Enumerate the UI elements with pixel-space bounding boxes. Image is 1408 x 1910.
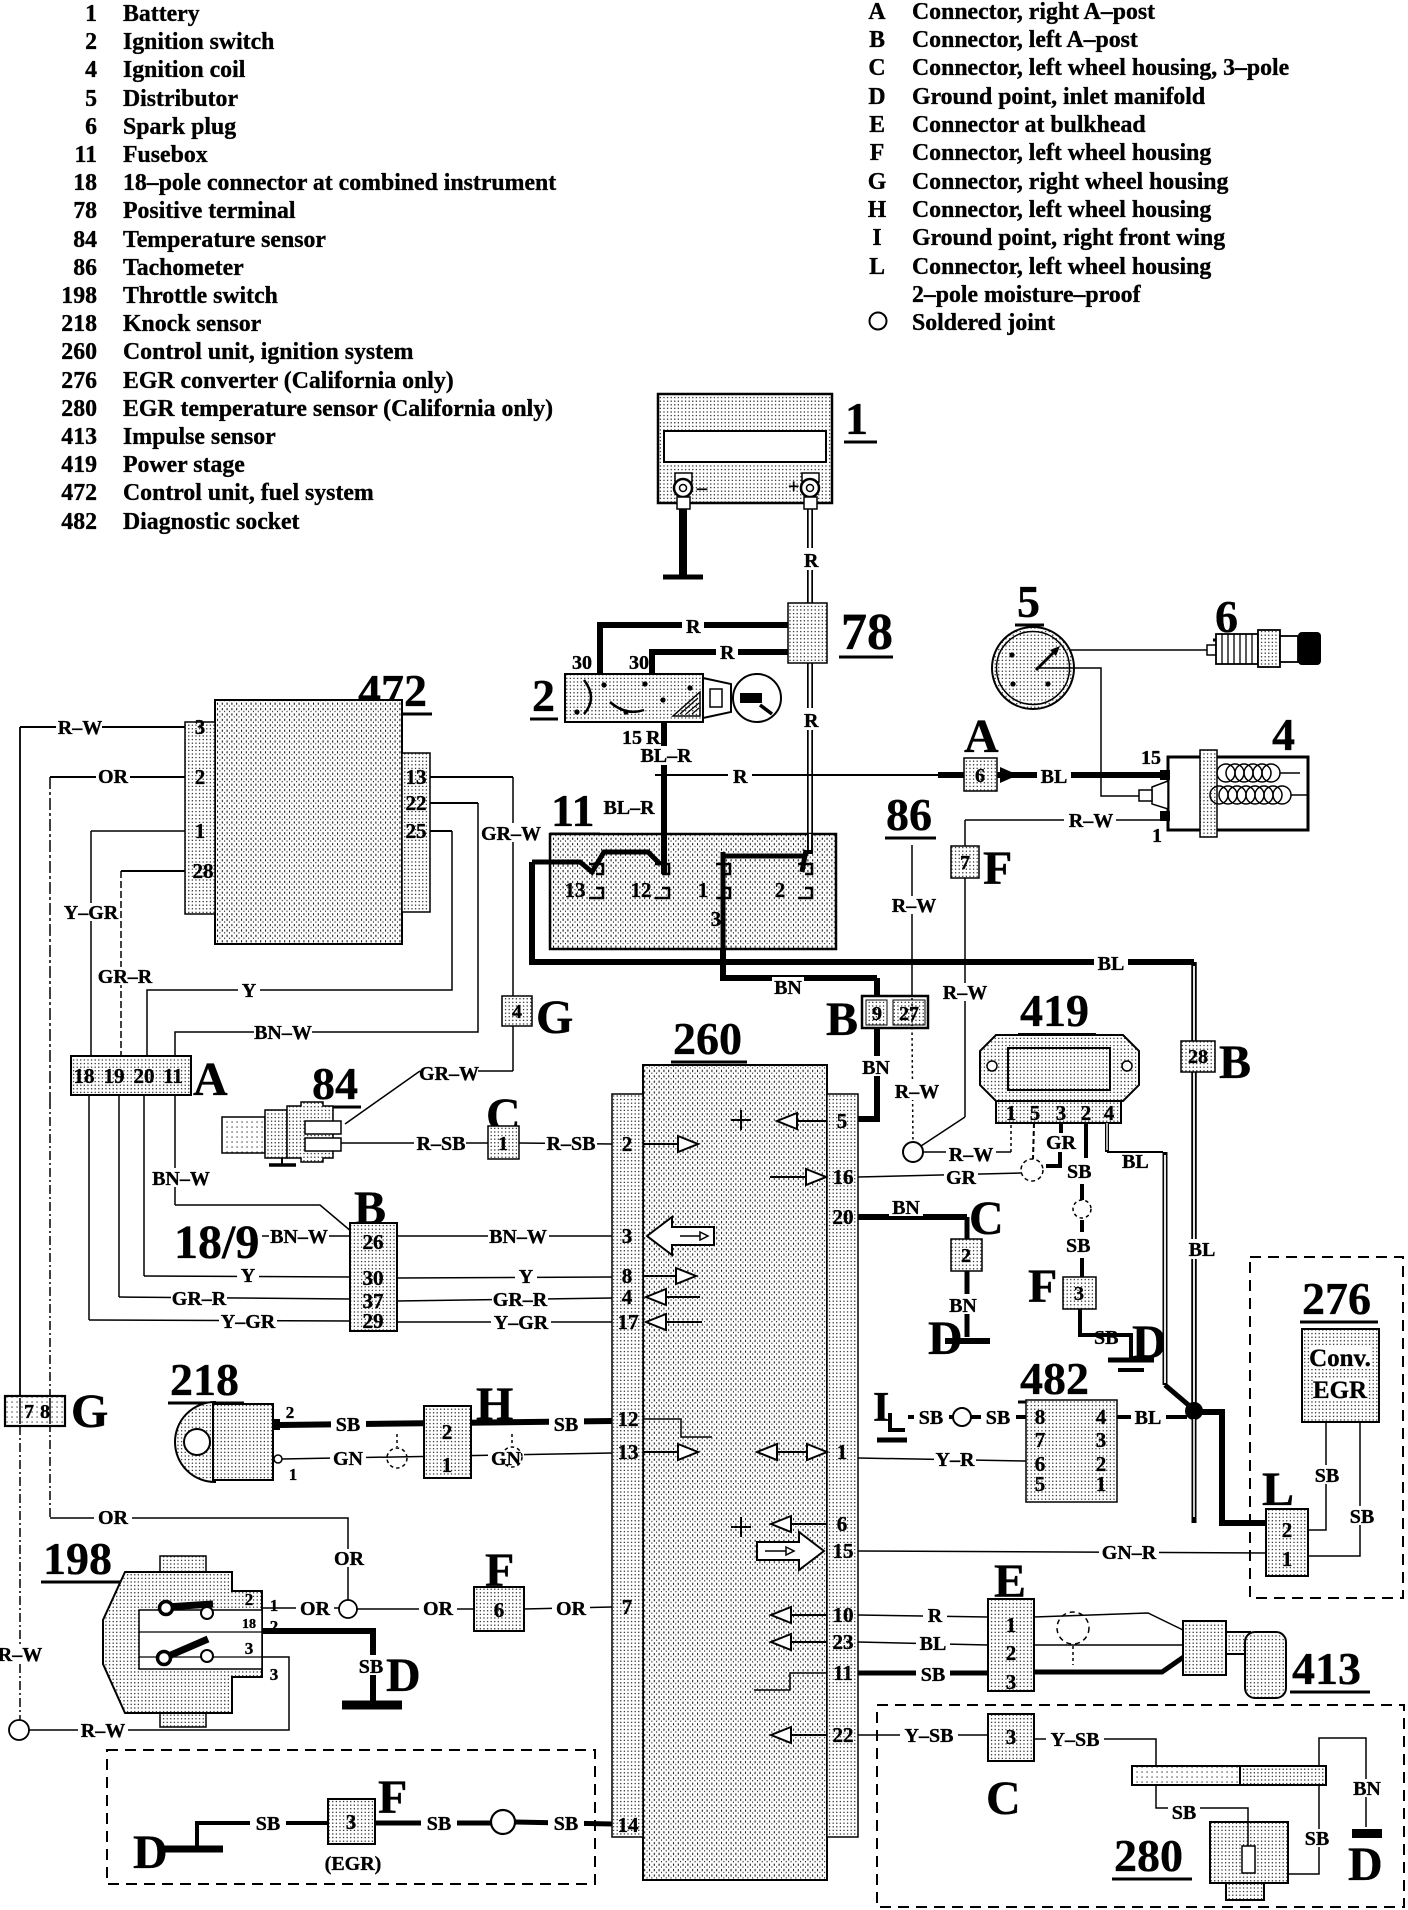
svg-text:3: 3 [711,907,722,931]
svg-text:7: 7 [960,852,970,874]
svg-text:Connector, left wheel housing: Connector, left wheel housing [912,197,1211,223]
svg-text:1: 1 [1006,1613,1017,1637]
svg-text:276: 276 [61,368,97,394]
svg-text:2: 2 [442,1420,453,1444]
svg-text:BN: BN [1353,1778,1381,1800]
svg-text:SB: SB [336,1414,360,1436]
svg-text:SB: SB [1305,1828,1329,1850]
svg-text:SB: SB [359,1656,383,1678]
svg-text:GN–R: GN–R [1102,1542,1157,1564]
svg-text:F: F [1028,1260,1057,1313]
svg-text:419: 419 [61,452,97,478]
svg-text:26: 26 [363,1230,384,1254]
svg-text:78: 78 [841,604,893,661]
svg-text:A: A [964,710,999,763]
svg-text:9: 9 [872,1003,882,1025]
svg-text:GN: GN [333,1448,364,1470]
svg-text:3: 3 [1074,1283,1084,1305]
svg-text:Positive terminal: Positive terminal [123,198,296,224]
svg-text:1: 1 [845,393,868,444]
svg-text:Impulse sensor: Impulse sensor [123,424,276,450]
svg-text:4: 4 [622,1285,633,1309]
svg-text:198: 198 [43,1533,112,1584]
svg-text:BL: BL [1098,953,1125,975]
svg-text:BN: BN [774,977,802,999]
svg-text:SB: SB [1315,1465,1339,1487]
svg-text:I: I [873,1385,889,1431]
svg-text:2: 2 [245,1590,254,1609]
svg-text:1: 1 [1152,825,1162,847]
svg-text:30: 30 [572,652,592,674]
svg-text:F: F [870,140,885,166]
svg-text:D: D [1348,1838,1383,1891]
svg-text:18: 18 [74,1064,95,1088]
svg-text:GR: GR [1046,1132,1077,1154]
svg-text:7: 7 [24,1401,34,1423]
svg-text:280: 280 [1114,1830,1183,1881]
svg-text:R–W: R–W [943,982,987,1004]
svg-text:SB: SB [554,1813,578,1835]
svg-text:EGR: EGR [1313,1377,1368,1404]
svg-text:Connector, left wheel housing,: Connector, left wheel housing, 3–pole [912,55,1289,81]
svg-text:R–W: R–W [892,895,936,917]
svg-text:28: 28 [1188,1046,1208,1068]
svg-text:Y–GR: Y–GR [221,1311,276,1333]
svg-text:C: C [969,1192,1004,1245]
svg-text:BN: BN [892,1197,920,1219]
svg-text:Connector, left wheel housing: Connector, left wheel housing [912,254,1211,280]
svg-text:2: 2 [85,29,97,55]
svg-text:11: 11 [551,785,594,836]
svg-text:8: 8 [1035,1405,1046,1429]
svg-text:6: 6 [975,765,985,787]
svg-text:Tachometer: Tachometer [123,255,244,281]
svg-text:D: D [1132,1316,1167,1369]
svg-text:1: 1 [289,1465,298,1484]
svg-text:4: 4 [1096,1405,1107,1429]
svg-text:I: I [872,225,881,251]
svg-text:G: G [71,1385,108,1438]
svg-text:SB: SB [256,1813,280,1835]
svg-text:15: 15 [622,727,642,749]
svg-text:Diagnostic socket: Diagnostic socket [123,509,300,535]
svg-text:2: 2 [286,1403,295,1422]
svg-text:Ignition coil: Ignition coil [123,57,246,83]
svg-text:BL–R: BL–R [603,797,655,819]
svg-text:R–SB: R–SB [547,1133,596,1155]
svg-text:1: 1 [442,1453,453,1477]
svg-text:OR: OR [98,1507,129,1529]
svg-text:A: A [868,0,886,25]
svg-text:5: 5 [837,1109,848,1133]
svg-text:C: C [986,1772,1021,1825]
svg-text:11: 11 [833,1661,853,1685]
svg-text:6: 6 [494,1598,505,1622]
svg-text:F: F [378,1771,407,1824]
svg-text:R–W: R–W [81,1720,125,1742]
svg-text:17: 17 [618,1310,639,1334]
svg-text:Y–SB: Y–SB [1051,1729,1100,1751]
svg-text:C: C [868,55,885,81]
svg-text:3: 3 [1056,1101,1067,1125]
svg-text:2: 2 [775,878,786,902]
svg-text:R: R [686,616,701,638]
svg-text:B: B [826,993,858,1046]
svg-text:R: R [733,766,748,788]
svg-text:29: 29 [363,1309,384,1333]
svg-text:SB: SB [986,1407,1010,1429]
svg-text:2: 2 [961,1245,971,1267]
svg-text:1: 1 [498,1133,508,1155]
svg-text:30: 30 [629,652,649,674]
svg-text:Throttle switch: Throttle switch [123,283,278,309]
svg-text:R: R [720,642,735,664]
svg-text:Connector, right A–post: Connector, right A–post [912,0,1155,25]
svg-text:2: 2 [622,1132,633,1156]
svg-text:15: 15 [833,1539,854,1563]
svg-text:5: 5 [1035,1472,1046,1496]
svg-text:2: 2 [1081,1101,1092,1125]
svg-text:BN–W: BN–W [254,1022,312,1044]
svg-text:Connector, right wheel housing: Connector, right wheel housing [912,169,1229,195]
svg-text:4: 4 [1272,709,1295,760]
svg-text:GR–R: GR–R [493,1289,548,1311]
svg-text:18–pole connector at combined: 18–pole connector at combined instrument [123,170,556,196]
svg-text:GR–W: GR–W [481,823,541,845]
svg-text:R–W: R–W [58,717,102,739]
svg-text:13: 13 [618,1440,639,1464]
svg-text:OR: OR [98,766,129,788]
svg-text:GR–R: GR–R [172,1288,227,1310]
svg-text:BL–R: BL–R [640,745,692,767]
svg-text:Connector, left wheel housing: Connector, left wheel housing [912,140,1211,166]
svg-text:SB: SB [1094,1327,1118,1349]
svg-text:482: 482 [1020,1353,1089,1404]
svg-text:H: H [476,1378,513,1431]
svg-text:Battery: Battery [123,1,200,27]
svg-text:GR: GR [946,1167,977,1189]
svg-text:(EGR): (EGR) [325,1853,382,1875]
svg-text:BN: BN [862,1057,890,1079]
svg-text:R: R [804,550,819,572]
svg-text:3: 3 [245,1639,254,1658]
svg-text:1: 1 [270,1596,279,1615]
svg-text:Y–R: Y–R [936,1449,975,1471]
svg-text:GR–W: GR–W [419,1063,479,1085]
svg-text:EGR converter (California only: EGR converter (California only) [123,368,454,394]
svg-text:4: 4 [1104,1101,1115,1125]
svg-text:+: + [788,476,799,498]
svg-text:R–W: R–W [1069,810,1113,832]
svg-text:G: G [868,169,887,195]
svg-text:SB: SB [919,1407,943,1429]
svg-text:Ground point, inlet manifold: Ground point, inlet manifold [912,84,1205,110]
svg-text:B: B [1219,1036,1251,1089]
svg-text:Ground point, right front wing: Ground point, right front wing [912,225,1225,251]
svg-text:218: 218 [61,311,97,337]
svg-text:R–W: R–W [0,1644,42,1666]
svg-text:20: 20 [134,1064,155,1088]
svg-text:Connector, left A–post: Connector, left A–post [912,27,1138,53]
svg-text:SB: SB [554,1414,578,1436]
svg-text:BL: BL [1122,1151,1149,1173]
svg-text:3: 3 [1006,1725,1017,1749]
svg-text:BN–W: BN–W [152,1168,210,1190]
svg-text:2: 2 [1282,1518,1293,1542]
svg-text:H: H [868,197,887,223]
svg-text:SB: SB [427,1813,451,1835]
svg-text:27: 27 [899,1003,919,1025]
svg-text:1: 1 [1282,1547,1293,1571]
svg-text:6: 6 [837,1512,848,1536]
svg-text:3: 3 [1096,1428,1107,1452]
svg-text:218: 218 [170,1354,239,1405]
svg-text:3: 3 [1006,1670,1017,1694]
svg-text:86: 86 [73,255,97,281]
svg-text:OR: OR [556,1598,587,1620]
svg-text:BL: BL [1189,1239,1216,1261]
svg-text:SB: SB [1066,1235,1090,1257]
svg-text:4: 4 [512,1001,522,1023]
svg-text:Y: Y [519,1266,534,1288]
svg-text:OR: OR [334,1548,365,1570]
svg-text:8: 8 [40,1401,50,1423]
svg-text:78: 78 [73,198,97,224]
svg-text:12: 12 [618,1407,639,1431]
svg-text:Knock sensor: Knock sensor [123,311,262,337]
svg-text:SB: SB [921,1664,945,1686]
svg-text:1: 1 [837,1440,848,1464]
svg-text:SB: SB [1350,1506,1374,1528]
svg-text:419: 419 [1020,985,1089,1036]
svg-text:SB: SB [1172,1802,1196,1824]
svg-text:R–W: R–W [895,1081,939,1103]
svg-text:E: E [869,112,885,138]
svg-text:Soldered joint: Soldered joint [912,310,1055,336]
svg-text:G: G [536,991,573,1044]
svg-text:16: 16 [833,1165,854,1189]
svg-text:3: 3 [195,715,206,739]
svg-text:84: 84 [73,227,97,253]
svg-text:472: 472 [61,480,97,506]
svg-text:Y: Y [242,980,257,1002]
svg-text:D: D [868,84,885,110]
svg-text:R: R [804,710,819,732]
svg-text:Control unit, ignition system: Control unit, ignition system [123,339,414,365]
svg-text:R: R [928,1605,943,1627]
svg-text:22: 22 [406,791,427,815]
svg-text:25: 25 [406,819,427,843]
svg-text:Conv.: Conv. [1309,1345,1371,1372]
svg-text:3: 3 [622,1224,633,1248]
svg-text:F: F [983,842,1012,895]
svg-text:Y–SB: Y–SB [905,1725,954,1747]
svg-text:Distributor: Distributor [123,86,238,112]
svg-text:1: 1 [85,1,97,27]
svg-text:BL: BL [920,1633,947,1655]
svg-text:4: 4 [85,57,97,83]
svg-text:1: 1 [1006,1101,1017,1125]
svg-text:30: 30 [363,1266,384,1290]
svg-text:Power stage: Power stage [123,452,245,478]
svg-text:5: 5 [1017,576,1040,627]
svg-text:18: 18 [242,1617,256,1632]
svg-text:2: 2 [1006,1641,1017,1665]
svg-text:GN: GN [491,1448,522,1470]
svg-text:20: 20 [833,1205,854,1229]
svg-text:Y–GR: Y–GR [64,902,119,924]
svg-text:13: 13 [406,765,427,789]
svg-text:15: 15 [1141,747,1161,769]
svg-text:1: 1 [698,878,709,902]
svg-text:2: 2 [532,670,555,721]
svg-text:13: 13 [565,878,586,902]
svg-text:198: 198 [61,283,97,309]
svg-text:R–W: R–W [949,1144,993,1166]
svg-text:B: B [869,27,885,53]
svg-text:23: 23 [833,1630,854,1654]
svg-text:3: 3 [346,1810,357,1834]
svg-text:86: 86 [886,789,932,840]
svg-text:Control unit, fuel system: Control unit, fuel system [123,480,374,506]
svg-text:L: L [869,254,885,280]
svg-text:276: 276 [1302,1273,1371,1324]
svg-text:EGR temperature sensor (Califo: EGR temperature sensor (California only) [123,396,553,422]
svg-text:14: 14 [618,1813,640,1837]
svg-text:7: 7 [1035,1428,1046,1452]
svg-text:7: 7 [622,1595,633,1619]
svg-text:GR–R: GR–R [98,966,153,988]
svg-text:Connector at bulkhead: Connector at bulkhead [912,112,1146,138]
svg-text:2: 2 [195,765,206,789]
svg-text:Fusebox: Fusebox [123,142,208,168]
svg-text:10: 10 [833,1603,854,1627]
svg-text:D: D [386,1649,421,1702]
svg-text:18: 18 [73,170,97,196]
svg-text:1: 1 [1096,1472,1107,1496]
svg-text:5: 5 [1030,1101,1041,1125]
svg-text:5: 5 [85,86,97,112]
svg-text:18/9: 18/9 [174,1216,259,1269]
svg-text:2–pole moisture–proof: 2–pole moisture–proof [912,282,1142,308]
svg-text:6: 6 [85,114,97,140]
svg-text:3: 3 [270,1665,279,1684]
svg-text:11: 11 [163,1064,183,1088]
svg-text:BL: BL [1135,1407,1162,1429]
svg-text:BL: BL [1041,766,1068,788]
svg-text:BN–W: BN–W [270,1226,328,1248]
svg-text:413: 413 [1292,1643,1361,1694]
svg-text:280: 280 [61,396,97,422]
svg-text:19: 19 [104,1064,125,1088]
svg-text:Ignition switch: Ignition switch [123,29,274,55]
svg-text:OR: OR [300,1598,331,1620]
svg-text:11: 11 [75,142,97,168]
svg-text:Y–GR: Y–GR [494,1312,549,1334]
svg-text:22: 22 [833,1723,854,1747]
svg-text:482: 482 [61,509,97,535]
svg-text:1: 1 [195,819,206,843]
svg-text:413: 413 [61,424,97,450]
svg-text:28: 28 [193,859,214,883]
svg-text:OR: OR [423,1598,454,1620]
svg-text:260: 260 [61,339,97,365]
svg-text:SB: SB [1067,1161,1091,1183]
svg-text:BN–W: BN–W [489,1226,547,1248]
svg-text:Spark plug: Spark plug [123,114,236,140]
svg-text:12: 12 [631,878,652,902]
svg-text:–: – [696,477,708,499]
svg-text:260: 260 [673,1013,742,1064]
svg-text:A: A [193,1053,228,1106]
svg-text:Temperature sensor: Temperature sensor [123,227,326,253]
svg-text:R–SB: R–SB [417,1133,466,1155]
